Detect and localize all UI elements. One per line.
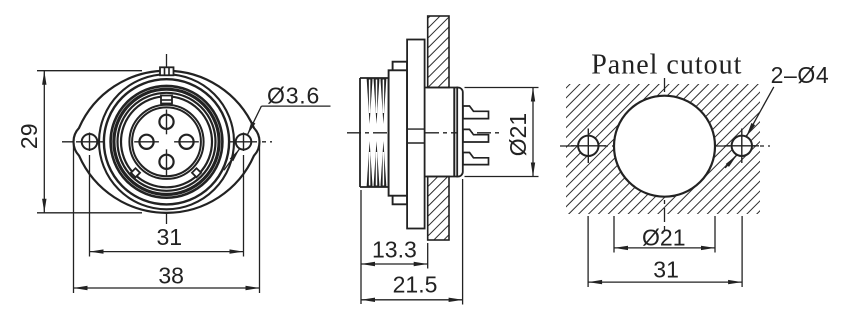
svg-text:13.3: 13.3 — [372, 236, 417, 262]
svg-text:Ø3.6: Ø3.6 — [267, 82, 320, 108]
svg-text:21.5: 21.5 — [393, 272, 438, 298]
svg-text:29: 29 — [16, 124, 42, 150]
svg-text:2–Ø4: 2–Ø4 — [771, 62, 830, 88]
svg-text:31: 31 — [653, 256, 679, 282]
svg-text:Ø21: Ø21 — [505, 113, 531, 156]
svg-text:Panel cutout: Panel cutout — [591, 50, 742, 81]
svg-text:31: 31 — [157, 224, 183, 250]
svg-text:38: 38 — [158, 263, 184, 289]
svg-text:Ø21: Ø21 — [642, 224, 685, 250]
